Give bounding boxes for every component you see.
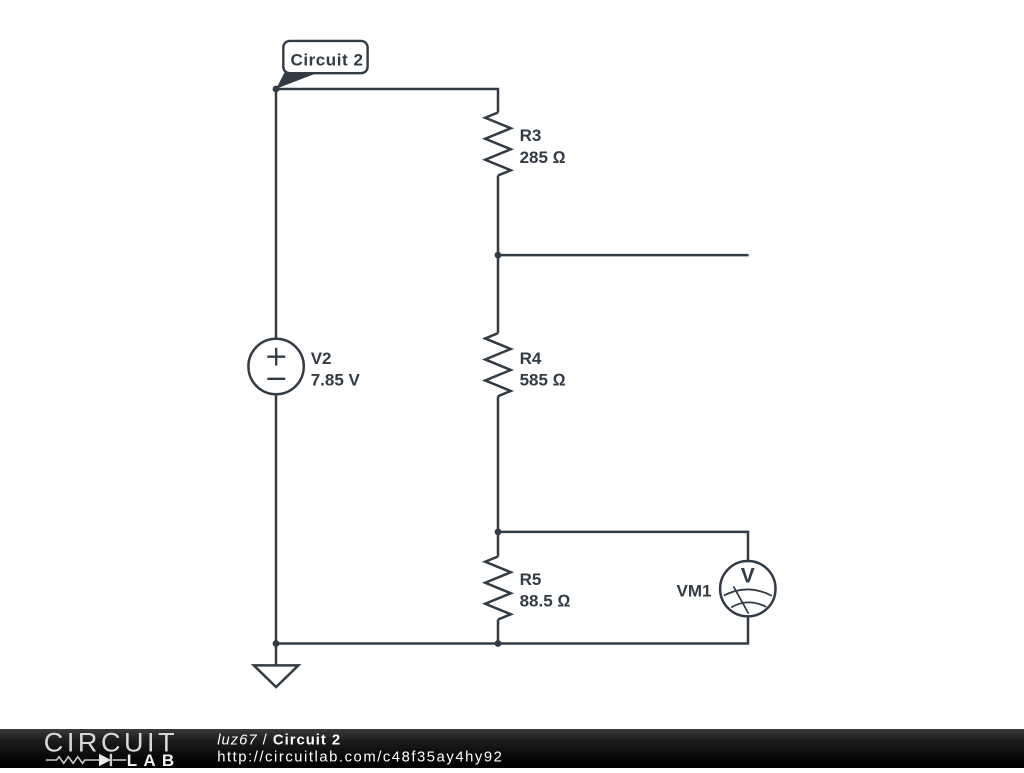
svg-text:R5: R5 (520, 570, 542, 589)
svg-text:VM1: VM1 (677, 581, 712, 600)
svg-text:luz67 / Circuit 2: luz67 / Circuit 2 (217, 732, 341, 748)
svg-text:Circuit 2: Circuit 2 (291, 50, 364, 69)
svg-text:285 Ω: 285 Ω (520, 148, 566, 167)
svg-text:http://circuitlab.com/c48f35ay: http://circuitlab.com/c48f35ay4hy92 (217, 750, 503, 766)
svg-text:7.85 V: 7.85 V (311, 370, 361, 389)
svg-text:R4: R4 (520, 349, 542, 368)
svg-text:LAB: LAB (127, 751, 181, 768)
svg-text:R3: R3 (520, 126, 542, 145)
svg-text:585 Ω: 585 Ω (520, 371, 566, 390)
svg-text:88.5 Ω: 88.5 Ω (520, 592, 571, 611)
svg-text:V2: V2 (311, 349, 332, 368)
svg-text:V: V (741, 565, 755, 588)
